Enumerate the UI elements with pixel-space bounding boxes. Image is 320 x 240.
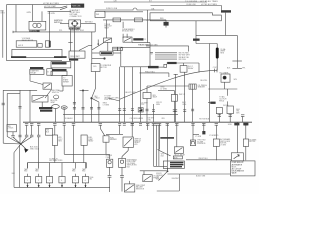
wire filter down	[146, 99, 148, 123]
switch diagonal 2	[105, 39, 111, 42]
wire y91 stub	[60, 90, 64, 92]
wire arm link	[89, 44, 92, 46]
starter motor box	[231, 153, 243, 161]
voltage regulator box	[16, 41, 37, 47]
connector col13	[11, 135, 14, 137]
wire run feed	[48, 10, 72, 12]
fusible link block	[71, 4, 84, 8]
stoplamp switch box	[104, 38, 112, 42]
connector col20	[18, 135, 21, 137]
wire alt output	[81, 22, 96, 24]
wire right trunk	[209, 44, 211, 123]
alternator terminal W	[71, 23, 72, 24]
fuel injector 2	[36, 177, 42, 183]
wire col119 seg	[119, 125, 121, 134]
wire switch drop	[224, 82, 226, 89]
wire col153	[153, 104, 155, 122]
wire box right link	[132, 42, 150, 44]
connector C101 shading	[11, 56, 26, 58]
wire col237 down	[236, 122, 238, 153]
svg-text:NO CRANK: NO CRANK	[220, 71, 230, 74]
wire tach lead drop	[198, 63, 200, 72]
wire col153 ext	[153, 130, 155, 166]
label mid dark	[160, 137, 174, 139]
wire sweep bottom	[158, 150, 171, 156]
label text row a	[39, 107, 52, 109]
wire diag to switch	[30, 81, 43, 85]
label C101 bar	[148, 66, 159, 68]
fuel injector 5	[72, 177, 78, 183]
wire inj bus left bend	[27, 163, 29, 169]
capacitor bar upper	[232, 60, 242, 62]
enclosure bottom	[7, 60, 63, 62]
wire col216	[215, 125, 217, 139]
injector 6 arrow	[85, 185, 87, 187]
node end dot	[104, 58, 106, 60]
wire y93 inner	[7, 93, 20, 95]
connector col64 bus	[63, 124, 66, 126]
wire col153 down	[153, 124, 155, 131]
connector left drop	[2, 103, 5, 105]
wire col99 drop	[98, 102, 100, 122]
wire injector 5 ground	[75, 183, 77, 188]
wire bend to dot	[92, 88, 96, 98]
connector colA	[53, 124, 56, 126]
wire tach link	[147, 85, 189, 87]
wire main harness bus	[23, 121, 252, 123]
ac resistor box	[227, 106, 233, 114]
sensor dark row 1	[170, 162, 183, 164]
wire ac c drop	[242, 117, 244, 123]
capacitor bar lower	[232, 67, 242, 69]
ignition coil primary winding	[33, 23, 37, 27]
svg-text:WHT/PPL S102: WHT/PPL S102	[71, 30, 84, 32]
connector ac c	[241, 115, 244, 117]
wire pump feed horiz	[64, 153, 109, 155]
wire col245 down	[245, 146, 247, 160]
wire branch to right	[196, 34, 237, 36]
ac relay left	[213, 139, 219, 146]
wire injector 3 drop	[49, 163, 51, 177]
connector eec drop 2	[123, 109, 126, 111]
connector oval C201	[54, 95, 59, 99]
wire col176	[175, 74, 177, 122]
wire rail to fuse box	[221, 6, 223, 11]
wire hatch drop	[192, 89, 194, 122]
svg-text:BLK/YEL: BLK/YEL	[201, 80, 208, 82]
regulator connector C2	[45, 41, 49, 47]
connector col153	[152, 110, 155, 112]
wire inner diag	[7, 137, 21, 145]
wire stator tap	[15, 5, 17, 32]
svg-text:C101 ENG HARN: C101 ENG HARN	[130, 117, 144, 120]
ac diode box	[216, 108, 222, 114]
fusible link resistor	[216, 48, 219, 59]
wire col147 down	[147, 124, 149, 131]
wire hot in run with hop	[95, 8, 164, 10]
washer pump label box	[7, 125, 16, 132]
wire inner drop	[6, 94, 8, 137]
ground node hub	[20, 143, 22, 145]
wire col30 upper	[29, 74, 31, 81]
connector pump1	[108, 176, 112, 178]
wire hub2 diag	[159, 171, 168, 180]
svg-text:PPL: PPL	[59, 30, 62, 32]
fuel injector 4	[59, 177, 65, 183]
connector col153 bus	[152, 124, 155, 126]
wire c101 link	[159, 66, 164, 68]
connector col73	[72, 124, 75, 126]
wire tach drop	[146, 86, 148, 93]
svg-text:DIODE: DIODE	[223, 105, 229, 107]
solenoid symbol	[191, 142, 194, 145]
fuse tick	[68, 42, 72, 44]
connector col100	[99, 124, 102, 126]
sensor dark row 3	[170, 166, 182, 167]
wire label box W/S	[100, 51, 113, 55]
legend box	[231, 161, 256, 176]
clutch switch box	[32, 96, 48, 102]
wire injector bus	[28, 162, 87, 164]
wire hub col 2	[31, 125, 33, 135]
svg-text:W/S 57: W/S 57	[179, 94, 185, 96]
wire y90 main	[3, 89, 37, 91]
ground node hub2	[167, 170, 169, 172]
svg-text:S205: S205	[228, 124, 232, 126]
wire A right	[113, 52, 121, 54]
pin label box A	[113, 47, 118, 50]
pump2 motor symbol	[120, 160, 123, 163]
ignition switch housing	[150, 13, 221, 21]
wire exit 2	[155, 54, 177, 56]
wire col73 down	[73, 125, 75, 162]
module box 2	[51, 71, 67, 75]
wire stub arrow	[97, 40, 99, 45]
connector diode	[202, 124, 205, 126]
wire collector y166	[154, 165, 168, 167]
wire pump2 feed a	[127, 147, 129, 150]
horn relay box	[95, 12, 105, 18]
wire injector 6 drop2	[85, 174, 87, 177]
wire hub down right	[21, 144, 26, 149]
wire solenoid drop	[62, 86, 64, 91]
wire col13 diag	[13, 137, 21, 144]
svg-text:PNK/LT BLU: PNK/LT BLU	[145, 71, 156, 73]
ground arrow	[24, 148, 28, 152]
wire hub drop 2	[19, 145, 21, 187]
wire alt output drop	[94, 23, 96, 32]
wire diode drop	[203, 124, 205, 132]
wire starter box feed	[186, 159, 231, 161]
wire ac b drop	[229, 114, 231, 123]
wire eec pin drop 2	[123, 67, 125, 122]
fuel injector 6	[82, 177, 88, 183]
svg-text:C107: C107	[213, 67, 217, 69]
connector eec drop 3	[131, 109, 134, 111]
wire injector 4 drop	[61, 163, 63, 177]
connector col184	[183, 110, 186, 112]
switch arm	[44, 84, 50, 88]
wire eec pin drop 4	[140, 67, 142, 122]
wire hub down left	[14, 144, 21, 153]
svg-text:BLK/LT GRN: BLK/LT GRN	[196, 176, 206, 178]
bulkhead connector strip	[12, 49, 62, 57]
wot relay arm	[175, 148, 182, 153]
wire relay feed corner	[143, 171, 145, 175]
fuel injector 3	[46, 177, 52, 183]
wire eec pin drop 1	[119, 67, 121, 122]
wire inj bus right bend	[85, 163, 87, 169]
wire connector strip C101	[63, 113, 178, 115]
ac relay right	[243, 139, 248, 146]
relay box B	[81, 135, 87, 145]
clutch cycling switch box	[221, 74, 230, 82]
connector hub col low 2	[30, 135, 33, 137]
connector ac b	[229, 115, 232, 117]
diode D1	[202, 131, 205, 134]
svg-text:RUN START: RUN START	[70, 55, 80, 58]
wire col100 seg	[99, 125, 101, 128]
wire col100 diag	[100, 129, 105, 136]
svg-text:BLK/WHT: BLK/WHT	[172, 178, 179, 180]
connector col147 bus	[146, 124, 149, 126]
big switch arm	[45, 90, 52, 99]
connector col83	[82, 107, 85, 109]
label text row b	[40, 110, 52, 112]
connector hub col low 1	[25, 135, 28, 137]
svg-text:DURA SPARK IIMODULE W/S: DURA SPARK IIMODULE W/S	[122, 28, 135, 33]
label box wiper	[46, 129, 53, 136]
wire exit 3	[155, 56, 177, 58]
wire col158	[158, 125, 160, 166]
wire diag to stoplamp	[92, 43, 104, 51]
wire injector ground bus	[14, 186, 110, 188]
wire colA down	[54, 145, 56, 162]
connector eec drop below bus 1	[118, 124, 121, 126]
wire res down	[173, 101, 175, 122]
wire third rail	[104, 11, 143, 13]
injector 5 arrow	[75, 185, 77, 187]
wire down from link	[149, 43, 151, 48]
label ballast title	[69, 59, 78, 61]
alternator terminal E	[77, 23, 78, 24]
wire pump1 feed	[109, 154, 111, 159]
ballast arm	[125, 185, 134, 191]
label s201	[210, 102, 215, 104]
svg-text:W/S: W/S	[162, 118, 165, 120]
svg-text:HOT IN START: HOT IN START	[44, 5, 57, 8]
svg-text:GRN: GRN	[27, 12, 32, 14]
tach filter box	[143, 93, 151, 99]
connector hub col 3	[37, 124, 40, 126]
starter solenoid box	[62, 76, 72, 87]
wire to starter relay sweep	[120, 71, 209, 100]
oil press relay box	[143, 175, 152, 182]
crossbar col176	[174, 73, 178, 75]
connector ac a	[218, 115, 221, 117]
wire stoplamp down	[107, 42, 109, 51]
wire pump2 diag	[122, 151, 128, 157]
connector col193	[191, 124, 194, 126]
wire stub y70	[209, 70, 218, 72]
wire branch diagonal	[92, 98, 99, 102]
wire coil feed	[31, 5, 33, 22]
starter interrupt relay	[180, 66, 187, 73]
wire ac down b	[227, 101, 229, 106]
starter relay title bar	[30, 67, 43, 69]
injector 3 arrow	[49, 185, 51, 187]
fuse link box F2	[221, 10, 231, 12]
wire injector 2 drop	[38, 163, 40, 169]
wire y191	[157, 190, 180, 192]
pump relay arm	[124, 138, 132, 146]
wire tick a	[122, 34, 124, 38]
ballast switch arm	[79, 45, 89, 50]
connector C102 shading	[54, 56, 67, 58]
label alternator	[69, 28, 81, 30]
module bar 2	[52, 69, 67, 71]
wire blk lt grn	[146, 45, 189, 47]
connector box C101	[164, 64, 167, 67]
wire col91 drop	[91, 98, 93, 122]
relay box A	[52, 135, 57, 145]
wire colB down	[83, 145, 85, 162]
wire tick b	[126, 34, 128, 38]
wire injector 1 drop	[27, 163, 29, 169]
wire col13	[12, 132, 14, 135]
connector col20 upper	[18, 106, 21, 108]
wire y134	[106, 133, 123, 135]
switch plunger	[223, 76, 226, 79]
connector eec drop 1	[118, 109, 121, 111]
wire blk lt grn drop	[188, 46, 190, 52]
inline fuse box 1	[113, 18, 121, 22]
svg-text:SOL: SOL	[93, 66, 97, 68]
pump relay box	[123, 137, 133, 147]
svg-text:HOT AT ALL TIMES: HOT AT ALL TIMES	[201, 3, 218, 6]
svg-text:LT GRN/PPL: LT GRN/PPL	[209, 135, 219, 137]
label S206 on wire	[193, 39, 200, 41]
wire y174	[168, 173, 231, 175]
relay feed stub	[183, 63, 185, 66]
wire pump1 down	[109, 167, 111, 175]
wire eec pin drop 3	[131, 67, 133, 122]
sensor arrow box	[138, 108, 143, 112]
wire res feed	[158, 89, 174, 91]
wire pump2 ground	[121, 177, 123, 191]
wire left enclosure edge	[6, 5, 8, 61]
wire colA drop	[54, 126, 56, 135]
alternator rotor	[72, 21, 77, 26]
wire col74 long	[73, 27, 75, 122]
wire pump2 stub	[121, 157, 123, 159]
node col83	[82, 90, 83, 91]
wire hot at all times top	[104, 1, 207, 3]
wire y905 stub	[80, 90, 89, 92]
switch diagonal	[124, 38, 131, 42]
starter relay box	[30, 69, 44, 74]
wire ign sw drop	[146, 10, 148, 43]
wire A left	[92, 52, 100, 54]
wire sender drop	[105, 142, 107, 154]
wire exit stub 1	[150, 52, 153, 54]
wire tach lead	[167, 62, 199, 64]
wire col64 lower	[63, 125, 65, 154]
wire ground riser	[13, 153, 15, 188]
wire y134 right	[193, 134, 199, 136]
connector oval C202	[52, 105, 60, 109]
wire col30 lower	[29, 90, 31, 122]
wire injector 2 ground	[38, 183, 40, 188]
connector oval C203	[61, 106, 67, 109]
svg-text:6: 6	[85, 180, 86, 182]
label ignition coil	[29, 30, 39, 32]
wire injector 3 ground	[49, 183, 51, 188]
connector col132	[131, 124, 134, 126]
wire y191 vert	[178, 174, 180, 191]
wire wedge lower	[60, 7, 67, 9]
connector col216	[215, 124, 218, 126]
wire relay out	[184, 72, 186, 122]
svg-text:HOT AT ALL TIMES: HOT AT ALL TIMES	[43, 2, 60, 5]
wire ignition feed drop	[195, 21, 197, 44]
wire left drop long	[2, 90, 4, 143]
wire pump1 ground	[109, 177, 111, 192]
sensor dark row 2	[170, 164, 183, 166]
svg-text:3: 3	[49, 180, 50, 182]
pin label box B	[118, 47, 123, 50]
wire ac a drop	[218, 114, 220, 123]
wire B	[92, 58, 104, 60]
clutch switch arm	[33, 97, 44, 102]
wire injector 1 ground	[27, 183, 29, 188]
connector hatch drop	[191, 109, 194, 111]
starter solenoid S1	[91, 64, 100, 72]
connector eec drop below bus 3	[131, 124, 134, 126]
splice S204 label	[164, 22, 169, 26]
wire hub col 1	[26, 125, 28, 135]
wire diag b	[21, 137, 32, 144]
wire col177	[176, 124, 178, 147]
wire stoplamp feed	[106, 20, 108, 38]
connector col156	[155, 124, 158, 126]
wire col64 drop	[63, 109, 65, 122]
wire exit 1	[155, 52, 177, 54]
wire pump2 down	[121, 167, 123, 175]
ignition module title bar	[52, 62, 67, 64]
wire injector 4 ground	[61, 183, 63, 188]
svg-text:4: 4	[61, 180, 62, 182]
svg-text:BLK/LT GRN DK GRN: BLK/LT GRN DK GRN	[140, 44, 158, 46]
EEC-IV module U2	[121, 48, 150, 67]
wire col167	[166, 124, 168, 170]
connector res	[173, 110, 176, 112]
wire col216 down	[215, 146, 217, 160]
ignition module switch box	[123, 37, 132, 42]
wire branch lower	[196, 43, 217, 45]
svg-text:LT GRN: LT GRN	[195, 136, 202, 138]
wire res top	[173, 90, 175, 94]
wire col83 drop	[82, 91, 84, 123]
wire 42 drop	[41, 102, 43, 107]
wire ac down a	[227, 89, 229, 96]
wire hub2 up	[167, 168, 169, 171]
connector col176	[174, 110, 177, 112]
junction node S101	[91, 97, 93, 99]
injector 1 arrow	[27, 185, 29, 187]
label on tach lead	[167, 62, 176, 64]
wire main bus y32	[13, 31, 95, 33]
